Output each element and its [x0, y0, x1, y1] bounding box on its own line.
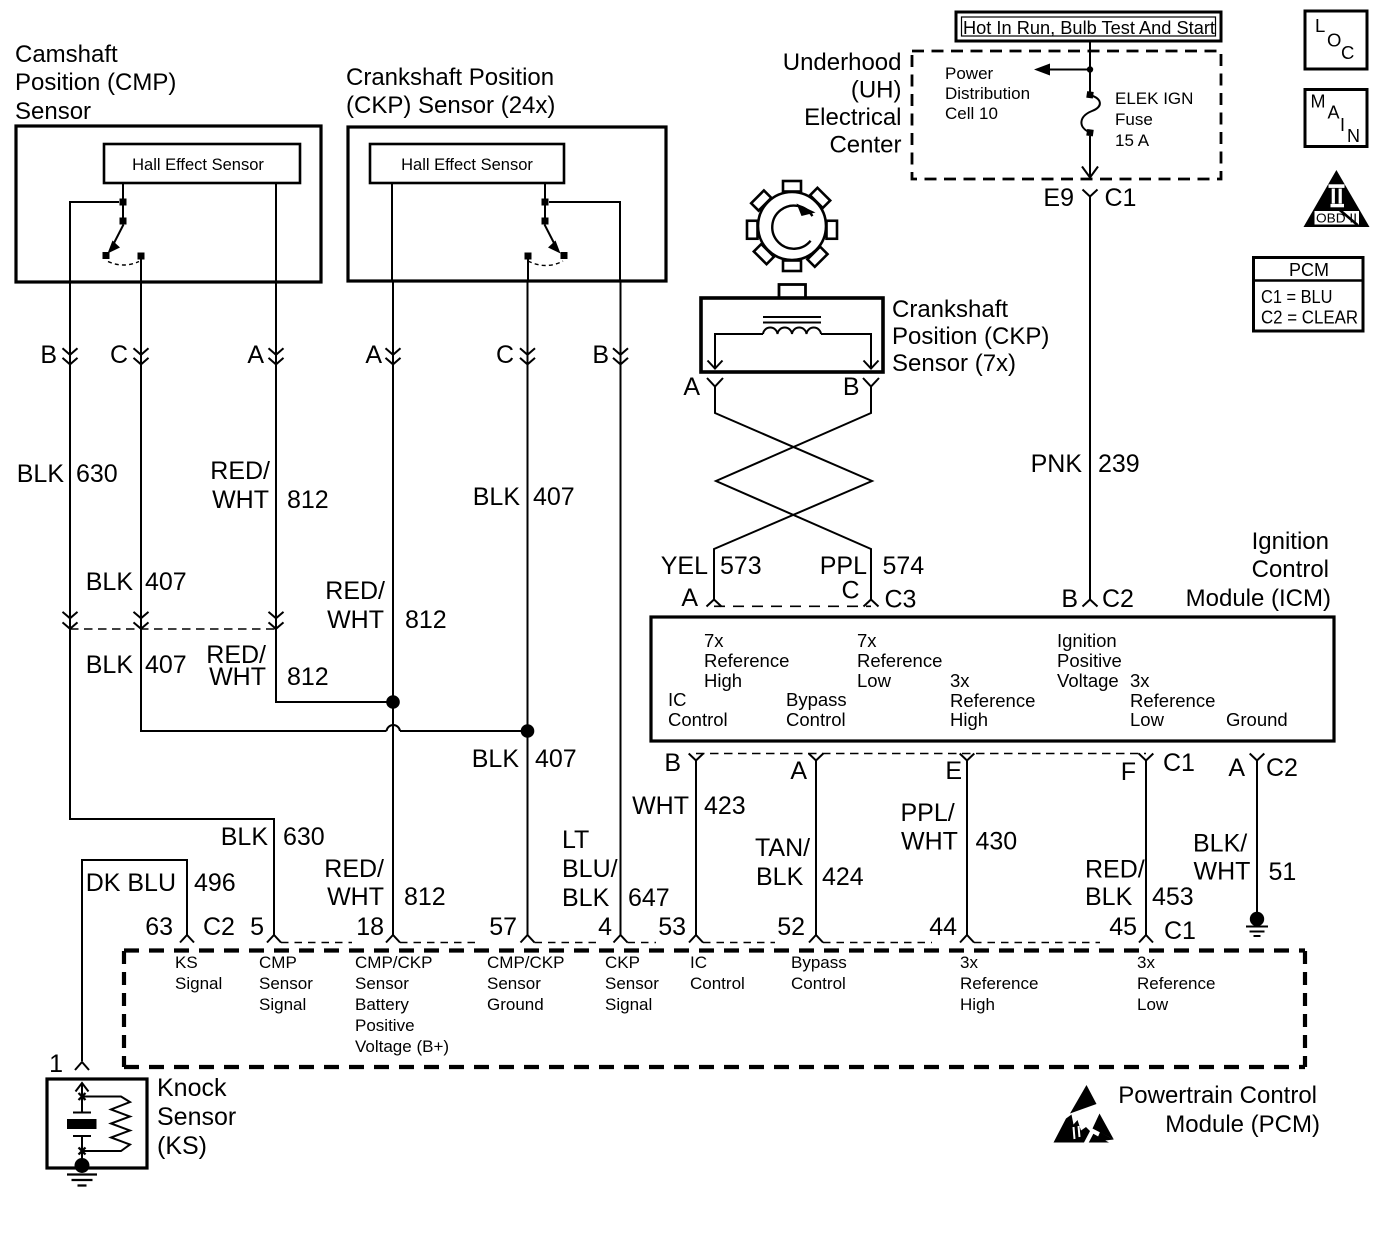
svg-text:Voltage: Voltage [1057, 670, 1119, 691]
svg-text:1: 1 [49, 1050, 63, 1078]
svg-text:Low: Low [1137, 995, 1169, 1014]
svg-text:Low: Low [857, 670, 892, 691]
svg-text:Hall Effect Sensor: Hall Effect Sensor [401, 156, 533, 174]
svg-text:BLK: BLK [86, 568, 134, 596]
wire CKP C internal [527, 259, 529, 281]
LOC legend box [1305, 11, 1367, 69]
svg-text:Positive: Positive [1057, 650, 1122, 671]
svg-text:C: C [841, 577, 859, 605]
svg-text:Camshaft: Camshaft [15, 41, 118, 68]
connector fork 5 (PCM) [267, 935, 281, 943]
wire CMP-C BLK 407 vertical [141, 283, 387, 731]
wire RED/BLK 453 [1145, 761, 1147, 936]
svg-text:B: B [664, 749, 681, 777]
svg-text:B: B [40, 341, 57, 369]
arrow to power distribution [1048, 69, 1090, 71]
label knock sensor KS [157, 1074, 236, 1160]
wire CMP-B BLK 630 vertical [70, 283, 274, 935]
knock sensor internal arrow [76, 1083, 89, 1094]
svg-text:B: B [1061, 585, 1078, 613]
svg-text:A: A [681, 584, 698, 612]
hall effect sensor U-CKP box [370, 144, 564, 183]
svg-text:407: 407 [145, 651, 187, 679]
wire CMP C internal [140, 259, 142, 283]
svg-text:Crankshaft: Crankshaft [892, 296, 1008, 323]
svg-text:7x: 7x [857, 630, 877, 651]
svg-text:WHT: WHT [1194, 858, 1251, 886]
node CKP contact left [525, 253, 532, 260]
connector fork A (ICM bottom) [809, 754, 824, 761]
connector fork B at 7x [863, 378, 879, 387]
wire CMP-A RED/WHT 812 vertical [276, 283, 393, 702]
svg-text:ELEK IGN: ELEK IGN [1115, 89, 1193, 108]
wire hall CKP output stub [544, 183, 546, 199]
PCM dashed box [124, 951, 1305, 1068]
svg-text:M: M [1311, 92, 1326, 112]
svg-text:I: I [1340, 115, 1345, 135]
svg-text:WHT: WHT [632, 792, 689, 820]
svg-text:7x: 7x [704, 630, 724, 651]
connector fork F C1 (ICM bottom) [1139, 754, 1154, 761]
svg-text:IC: IC [668, 689, 687, 710]
svg-text:C3: C3 [885, 586, 917, 614]
svg-text:F: F [1121, 758, 1136, 786]
connector fork 18 (PCM) [386, 935, 400, 943]
svg-text:Low: Low [1130, 709, 1165, 730]
dashed connector line under ICM [696, 753, 1146, 755]
node CMP contact left [103, 252, 110, 259]
svg-text:Ignition: Ignition [1057, 630, 1117, 651]
svg-text:BLK: BLK [1085, 883, 1133, 911]
svg-text:Ground: Ground [1226, 709, 1288, 730]
svg-text:(KS): (KS) [157, 1132, 207, 1160]
svg-text:Sensor: Sensor [355, 974, 409, 993]
svg-text:496: 496 [194, 869, 236, 897]
svg-text:High: High [960, 995, 995, 1014]
svg-text:3x: 3x [950, 670, 970, 691]
wire CKP B internal [549, 202, 620, 281]
wire BLK/WHT 51 to ground [1256, 761, 1258, 913]
switch pole link CMP [122, 202, 124, 218]
wire TAN/BLK 424 [815, 761, 817, 936]
connector fork C3 at ICM [864, 600, 879, 607]
svg-text:Control: Control [1252, 556, 1329, 583]
fuse ELEK IGN 15A [1086, 91, 1093, 98]
switch travel dashed arc CKP [528, 261, 563, 266]
crankshaft position 24x title [346, 64, 555, 119]
svg-text:52: 52 [777, 913, 805, 941]
dashed terminal line PCM [281, 942, 1100, 944]
svg-text:Knock: Knock [157, 1074, 227, 1102]
svg-text:Sensor: Sensor [605, 974, 659, 993]
wire CMP B internal [70, 202, 119, 283]
svg-text:CMP/CKP: CMP/CKP [355, 953, 432, 972]
svg-text:Control: Control [786, 709, 846, 730]
svg-text:Fuse: Fuse [1115, 110, 1153, 129]
connector fork B C2 at ICM top [1083, 600, 1098, 607]
svg-text:239: 239 [1098, 450, 1140, 478]
svg-text:407: 407 [535, 745, 577, 773]
svg-text:C: C [496, 341, 514, 369]
svg-text:BLU/: BLU/ [562, 855, 618, 883]
svg-text:BLK: BLK [562, 884, 610, 912]
svg-text:E9: E9 [1043, 184, 1074, 212]
svg-text:63: 63 [145, 913, 173, 941]
label KS signal [175, 953, 222, 993]
svg-text:Control: Control [668, 709, 728, 730]
svg-text:C2: C2 [1102, 585, 1134, 613]
svg-text:L: L [1315, 15, 1325, 36]
svg-text:812: 812 [287, 486, 329, 514]
label ELEK IGN fuse [1115, 89, 1193, 150]
svg-text:407: 407 [145, 568, 187, 596]
label IC control (ICM) [668, 689, 728, 730]
label bypass control (PCM) [791, 953, 847, 993]
chevron CMP-C top [134, 348, 149, 364]
svg-text:RED/: RED/ [324, 855, 384, 883]
hop over wire at RED/WHT [387, 725, 401, 731]
reluctor wheel icon [747, 181, 837, 271]
wire CKP A internal [391, 183, 393, 281]
svg-text:Electrical: Electrical [804, 104, 901, 131]
svg-text:BLK: BLK [756, 863, 804, 891]
knock sensor KS box [47, 1079, 147, 1168]
svg-text:High: High [704, 670, 742, 691]
svg-text:Control: Control [791, 974, 846, 993]
svg-text:Cell 10: Cell 10 [945, 104, 998, 123]
label 3x reference high (ICM) [950, 670, 1035, 730]
connector fork E (ICM bottom) [960, 754, 975, 761]
UH electrical center dashed box [912, 51, 1221, 179]
svg-text:LT: LT [562, 826, 589, 854]
svg-text:Module (ICM): Module (ICM) [1186, 585, 1331, 612]
svg-text:(UH): (UH) [851, 77, 902, 104]
svg-text:C: C [1341, 42, 1354, 63]
wire twisted pair YEL/PPL [714, 387, 872, 600]
svg-text:A: A [1228, 754, 1245, 782]
svg-text:573: 573 [720, 552, 762, 580]
wire DK BLU 496 [82, 860, 187, 1061]
svg-text:Control: Control [690, 974, 745, 993]
svg-text:CMP: CMP [259, 953, 297, 972]
svg-text:C: C [110, 341, 128, 369]
svg-text:C2: C2 [1266, 754, 1298, 782]
wire CMP A internal [275, 183, 277, 283]
svg-text:DK BLU: DK BLU [86, 869, 176, 897]
svg-text:A: A [1328, 103, 1340, 123]
svg-text:453: 453 [1152, 883, 1194, 911]
svg-text:423: 423 [704, 792, 746, 820]
svg-text:WHT: WHT [212, 486, 269, 514]
node power distribution tap [1087, 66, 1093, 72]
wire fuse to E9 with arrow [1089, 136, 1091, 177]
connector fork 53 (PCM) [689, 935, 703, 943]
svg-text:Signal: Signal [605, 995, 652, 1014]
svg-text:Ground: Ground [487, 995, 544, 1014]
svg-text:Sensor: Sensor [487, 974, 541, 993]
svg-text:4: 4 [598, 913, 612, 941]
svg-text:Distribution: Distribution [945, 84, 1030, 103]
svg-text:647: 647 [628, 884, 670, 912]
svg-text:Crankshaft Position: Crankshaft Position [346, 64, 554, 91]
CKP 7x mounting tab [779, 285, 806, 299]
svg-text:Power: Power [945, 64, 994, 83]
svg-text:Voltage (B+): Voltage (B+) [355, 1037, 449, 1056]
node contact bottom (KS) [79, 1147, 86, 1156]
ignition control module title [1186, 528, 1331, 612]
svg-text:BLK: BLK [472, 745, 520, 773]
svg-text:Powertrain Control: Powertrain Control [1118, 1082, 1317, 1109]
switch travel dashed arc CMP [108, 262, 139, 266]
svg-text:812: 812 [405, 606, 447, 634]
connector fork 45 C1 (PCM) [1139, 935, 1153, 943]
chevron CMP-B at splice [63, 612, 78, 629]
chevron CMP-A top [269, 348, 284, 364]
ICM U2 box [651, 617, 1334, 741]
PCM connector legend table [1254, 258, 1364, 332]
switch pole link CKP [544, 202, 546, 218]
svg-text:Center: Center [829, 132, 901, 159]
svg-text:BLK: BLK [86, 651, 134, 679]
OBD II triangle badge [1304, 170, 1370, 227]
node CMP switch common [120, 199, 127, 206]
svg-text:Reference: Reference [950, 690, 1035, 711]
svg-text:C1: C1 [1105, 184, 1137, 212]
svg-text:Battery: Battery [355, 995, 409, 1014]
svg-text:Signal: Signal [175, 974, 222, 993]
svg-text:44: 44 [929, 913, 957, 941]
node CKP contact right [561, 252, 568, 259]
svg-text:15 A: 15 A [1115, 131, 1150, 150]
switch arm CMP [114, 225, 124, 245]
node CMP contact right [138, 253, 145, 260]
svg-text:Sensor: Sensor [15, 98, 91, 125]
connector fork A at ICM [707, 600, 722, 607]
svg-text:Reference: Reference [857, 650, 942, 671]
svg-text:57: 57 [489, 913, 517, 941]
chevron CKP-B top [613, 348, 628, 364]
svg-text:Sensor (7x): Sensor (7x) [892, 350, 1016, 377]
svg-text:C2: C2 [203, 913, 235, 941]
svg-text:BLK: BLK [473, 483, 521, 511]
connector fork 63 C2 (PCM) [180, 935, 194, 943]
piezo element (KS) [73, 1100, 91, 1113]
svg-text:A: A [683, 373, 700, 401]
label ignition positive voltage [1057, 630, 1122, 691]
svg-text:Hot In Run, Bulb Test And Star: Hot In Run, Bulb Test And Start [963, 17, 1215, 38]
svg-text:5: 5 [250, 913, 264, 941]
svg-text:Reference: Reference [960, 974, 1038, 993]
label CKP sensor signal [605, 953, 659, 1014]
node contact top (KS) [79, 1092, 86, 1101]
svg-text:Position (CMP): Position (CMP) [15, 69, 176, 96]
svg-text:Signal: Signal [259, 995, 306, 1014]
node splice RED/WHT 812 [386, 695, 400, 709]
svg-text:E: E [945, 757, 962, 785]
svg-text:CMP/CKP: CMP/CKP [487, 953, 564, 972]
svg-text:BLK: BLK [221, 823, 269, 851]
svg-text:Reference: Reference [1130, 690, 1215, 711]
node CMP switch pole [120, 218, 127, 225]
label 7x reference low [857, 630, 942, 691]
svg-text:630: 630 [76, 460, 118, 488]
svg-text:RED/: RED/ [210, 457, 270, 485]
label CMP sensor signal [259, 953, 313, 1014]
svg-text:Hall Effect Sensor: Hall Effect Sensor [132, 156, 264, 174]
svg-text:RED/: RED/ [325, 577, 385, 605]
svg-text:3x: 3x [1130, 670, 1150, 691]
coil lead right with arrow [821, 334, 871, 367]
svg-text:PPL/: PPL/ [901, 799, 955, 827]
resistor (KS) [82, 1097, 130, 1152]
wire CKP-B LT BLU/BLK 647 vertical [620, 281, 622, 935]
svg-text:CKP: CKP [605, 953, 640, 972]
svg-text:A: A [365, 341, 382, 369]
label 3x reference low (ICM) [1130, 670, 1215, 730]
svg-text:BLK: BLK [17, 460, 65, 488]
hot in run bulb test and start box [956, 12, 1221, 41]
svg-text:45: 45 [1109, 913, 1137, 941]
dashed connector line A to C3 [714, 605, 871, 607]
wire PPL/WHT 430 [966, 761, 968, 936]
CKP 24x sensor box [348, 127, 666, 281]
svg-text:WHT: WHT [327, 883, 384, 911]
chevron CMP-C at splice [134, 612, 149, 629]
svg-text:WHT: WHT [901, 828, 958, 856]
svg-text:Reference: Reference [704, 650, 789, 671]
svg-text:B: B [843, 373, 860, 401]
svg-text:Ignition: Ignition [1252, 528, 1329, 555]
svg-text:Sensor: Sensor [157, 1103, 236, 1131]
svg-text:KS: KS [175, 953, 198, 972]
node CKP switch pole [542, 218, 549, 225]
connector fork 1 at knock sensor [75, 1062, 89, 1070]
svg-text:812: 812 [404, 883, 446, 911]
pickup coil windings [763, 328, 821, 334]
svg-text:O: O [1327, 30, 1341, 51]
wire PNK 239 [1089, 197, 1091, 600]
svg-text:IC: IC [690, 953, 707, 972]
camshaft position sensor title [15, 41, 176, 125]
svg-text:C1: C1 [1164, 917, 1196, 945]
svg-text:WHT: WHT [209, 663, 266, 691]
svg-text:PCM: PCM [1289, 260, 1329, 280]
MAIN legend box [1305, 90, 1367, 147]
svg-text:B: B [592, 341, 609, 369]
label 3x reference low (PCM) [1137, 953, 1215, 1014]
svg-text:51: 51 [1269, 858, 1297, 886]
connector fork B (ICM bottom) [689, 754, 704, 761]
svg-text:TAN/: TAN/ [755, 834, 810, 862]
label bypass control (ICM) [786, 689, 847, 730]
ground at KS case [75, 1158, 90, 1173]
svg-text:C1: C1 [1163, 749, 1195, 777]
chevron CMP-B top [63, 348, 78, 364]
coil lead left with arrow [715, 334, 763, 367]
svg-text:630: 630 [283, 823, 325, 851]
svg-text:YEL: YEL [661, 552, 708, 580]
wire CKP-A RED/WHT 812 vertical [392, 281, 394, 935]
label power distribution cell 10 [945, 64, 1030, 123]
wire hall CMP output stub [122, 183, 124, 199]
label CMP/CKP sensor battery positive voltage [355, 953, 449, 1056]
wire CKP-C BLK 407 vertical [527, 281, 529, 935]
svg-text:(CKP) Sensor (24x): (CKP) Sensor (24x) [346, 92, 555, 119]
svg-text:Module (PCM): Module (PCM) [1165, 1111, 1320, 1138]
svg-text:WHT: WHT [327, 606, 384, 634]
CKP 7x sensor box [701, 298, 883, 372]
svg-text:574: 574 [883, 552, 925, 580]
svg-text:A: A [790, 757, 807, 785]
svg-text:Sensor: Sensor [259, 974, 313, 993]
svg-text:High: High [950, 709, 988, 730]
connector E9 C1 fork [1083, 190, 1098, 197]
svg-text:N: N [1347, 126, 1360, 146]
hall effect sensor U-CMP box [104, 144, 300, 183]
connector fork 44 (PCM) [960, 935, 974, 943]
node CKP switch common [542, 199, 549, 206]
connector fork 57 (PCM) [521, 935, 535, 943]
label 7x reference high [704, 630, 789, 691]
svg-text:C1 = BLU: C1 = BLU [1261, 287, 1333, 307]
svg-text:Reference: Reference [1137, 974, 1215, 993]
svg-text:53: 53 [658, 913, 686, 941]
label 3x reference high (PCM) [960, 953, 1038, 1014]
node splice BLK 407 [521, 724, 535, 738]
label CMP/CKP sensor ground [487, 953, 564, 1014]
wire from hot feed down [1089, 41, 1091, 92]
svg-text:Bypass: Bypass [786, 689, 847, 710]
ground G101 [1250, 912, 1264, 926]
svg-text:430: 430 [976, 828, 1018, 856]
svg-text:18: 18 [356, 913, 384, 941]
chevron CKP-C top [520, 348, 535, 364]
label crankshaft position CKP sensor 7x [892, 296, 1049, 377]
svg-text:Bypass: Bypass [791, 953, 847, 972]
connector fork A C2 (ICM bottom) [1250, 754, 1265, 761]
svg-text:Underhood: Underhood [783, 49, 902, 76]
chevron CMP-A at splice [269, 612, 284, 629]
svg-text:A: A [247, 341, 264, 369]
wire WHT 423 [695, 761, 697, 936]
underhood electrical center title [783, 49, 902, 159]
svg-text:C2 = CLEAR: C2 = CLEAR [1261, 308, 1358, 328]
connector fork 4 (PCM) [614, 935, 628, 943]
inline connector dashed line [70, 628, 276, 630]
svg-text:812: 812 [287, 663, 329, 691]
switch arm CKP [545, 225, 555, 245]
connector fork 52 (PCM) [809, 935, 823, 943]
svg-text:3x: 3x [960, 953, 978, 972]
svg-text:407: 407 [533, 483, 575, 511]
svg-text:PNK: PNK [1031, 450, 1083, 478]
svg-text:RED/: RED/ [1085, 856, 1145, 884]
chevron CKP-A top [386, 348, 401, 364]
svg-text:BLK/: BLK/ [1193, 830, 1247, 858]
svg-text:Position (CKP): Position (CKP) [892, 323, 1049, 350]
connector fork A at 7x [707, 378, 723, 387]
svg-text:3x: 3x [1137, 953, 1155, 972]
label IC control (PCM) [690, 953, 745, 993]
pickup coil core lines [763, 317, 821, 323]
CMP sensor box [16, 126, 321, 282]
esd symbol [1054, 1085, 1114, 1147]
svg-text:424: 424 [822, 863, 864, 891]
wire to case ground (KS) [81, 1155, 83, 1162]
svg-text:Positive: Positive [355, 1016, 415, 1035]
